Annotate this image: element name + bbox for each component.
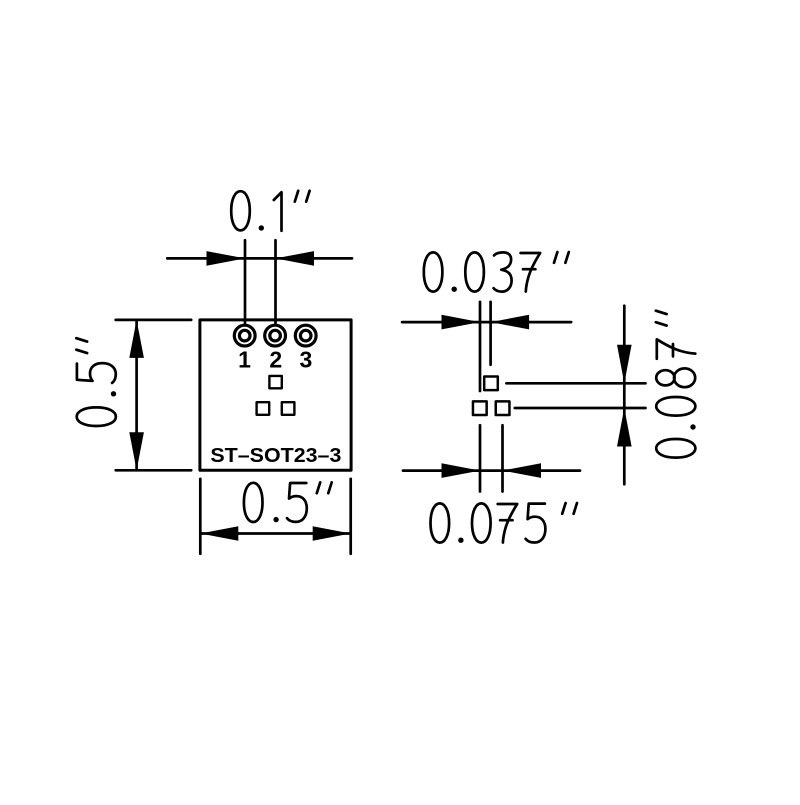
pin 1 pad annulus: [234, 325, 255, 346]
svg-text:3: 3: [299, 346, 312, 372]
wire dimension line 0.5 in bottom: [200, 532, 350, 535]
arrow left of 0.075 in dim: [442, 463, 481, 478]
arrow right of 0.1 in dim: [276, 251, 315, 266]
wire extension line top (0.087 in dim): [506, 382, 645, 385]
wire extension line right (0.075 in dim): [501, 425, 504, 491]
smd pad bottom-right (pin 2 of SOT23): [282, 402, 295, 415]
arrow down of 0.087 in dim: [617, 345, 632, 384]
wire dimension line 0.1 in: [167, 257, 352, 260]
wire extension line left (0.5 in bottom dim): [199, 479, 202, 554]
detail smd pad bottom-right: [496, 401, 510, 415]
svg-text:2: 2: [269, 346, 282, 372]
wire extension line bottom (0.5 in vertical dim): [116, 469, 192, 472]
wire extension line left (0.037 in dim): [479, 302, 482, 391]
wire extension line right (0.5 in bottom dim): [349, 479, 352, 554]
arrow left of 0.1 in dim: [207, 251, 246, 266]
arrow down of 0.5 in vertical dim: [129, 432, 144, 470]
arrow right of 0.037 in dim: [491, 315, 529, 330]
board outline ST-SOT23-3: [200, 320, 351, 470]
arrow up of 0.5 in vertical dim: [129, 320, 144, 358]
svg-text:1: 1: [238, 346, 251, 372]
smd pad top (pin 3 of SOT23): [269, 376, 281, 388]
wire dimension line 0.5 in vertical: [135, 320, 138, 470]
wire extension line bottom (0.087 in dim): [515, 407, 646, 410]
arrow right of 0.075 in dim: [503, 463, 542, 478]
arrow right of 0.5 in bottom dim: [313, 526, 351, 541]
detail smd pad top: [484, 377, 498, 391]
arrow left of 0.037 in dim: [442, 315, 481, 330]
wire extension line left (0.075 in dim): [479, 425, 482, 491]
value label 0.5'' rotated: [76, 338, 116, 426]
svg-text:ST–SOT23–3: ST–SOT23–3: [210, 444, 341, 467]
value label 0.5'' bottom: [244, 482, 332, 522]
value label 0.1'': [231, 191, 309, 231]
wire dimension line 0.087 in vertical: [623, 306, 626, 485]
value label 0.087'' rotated: [656, 311, 696, 458]
arrow left of 0.5 in bottom dim: [200, 526, 238, 541]
wire extension line right (0.037 in dim): [489, 302, 492, 365]
pin 3 pad annulus: [295, 325, 316, 346]
value label 0.075'': [431, 503, 578, 543]
smd pad bottom-left (pin 1 of SOT23): [257, 402, 270, 415]
wire extension line pin2 (0.1 in dim): [274, 240, 277, 332]
wire extension line pin1 (0.1 in dim): [244, 240, 247, 332]
wire dimension line 0.075 in: [403, 469, 580, 472]
wire dimension line 0.037 in: [402, 321, 571, 324]
detail smd pad bottom-left: [473, 401, 487, 415]
wire extension line top (0.5 in vertical dim): [116, 319, 192, 322]
arrow up of 0.087 in dim: [617, 408, 632, 447]
value label 0.037'': [424, 252, 569, 292]
pin 2 pad annulus: [265, 325, 286, 346]
